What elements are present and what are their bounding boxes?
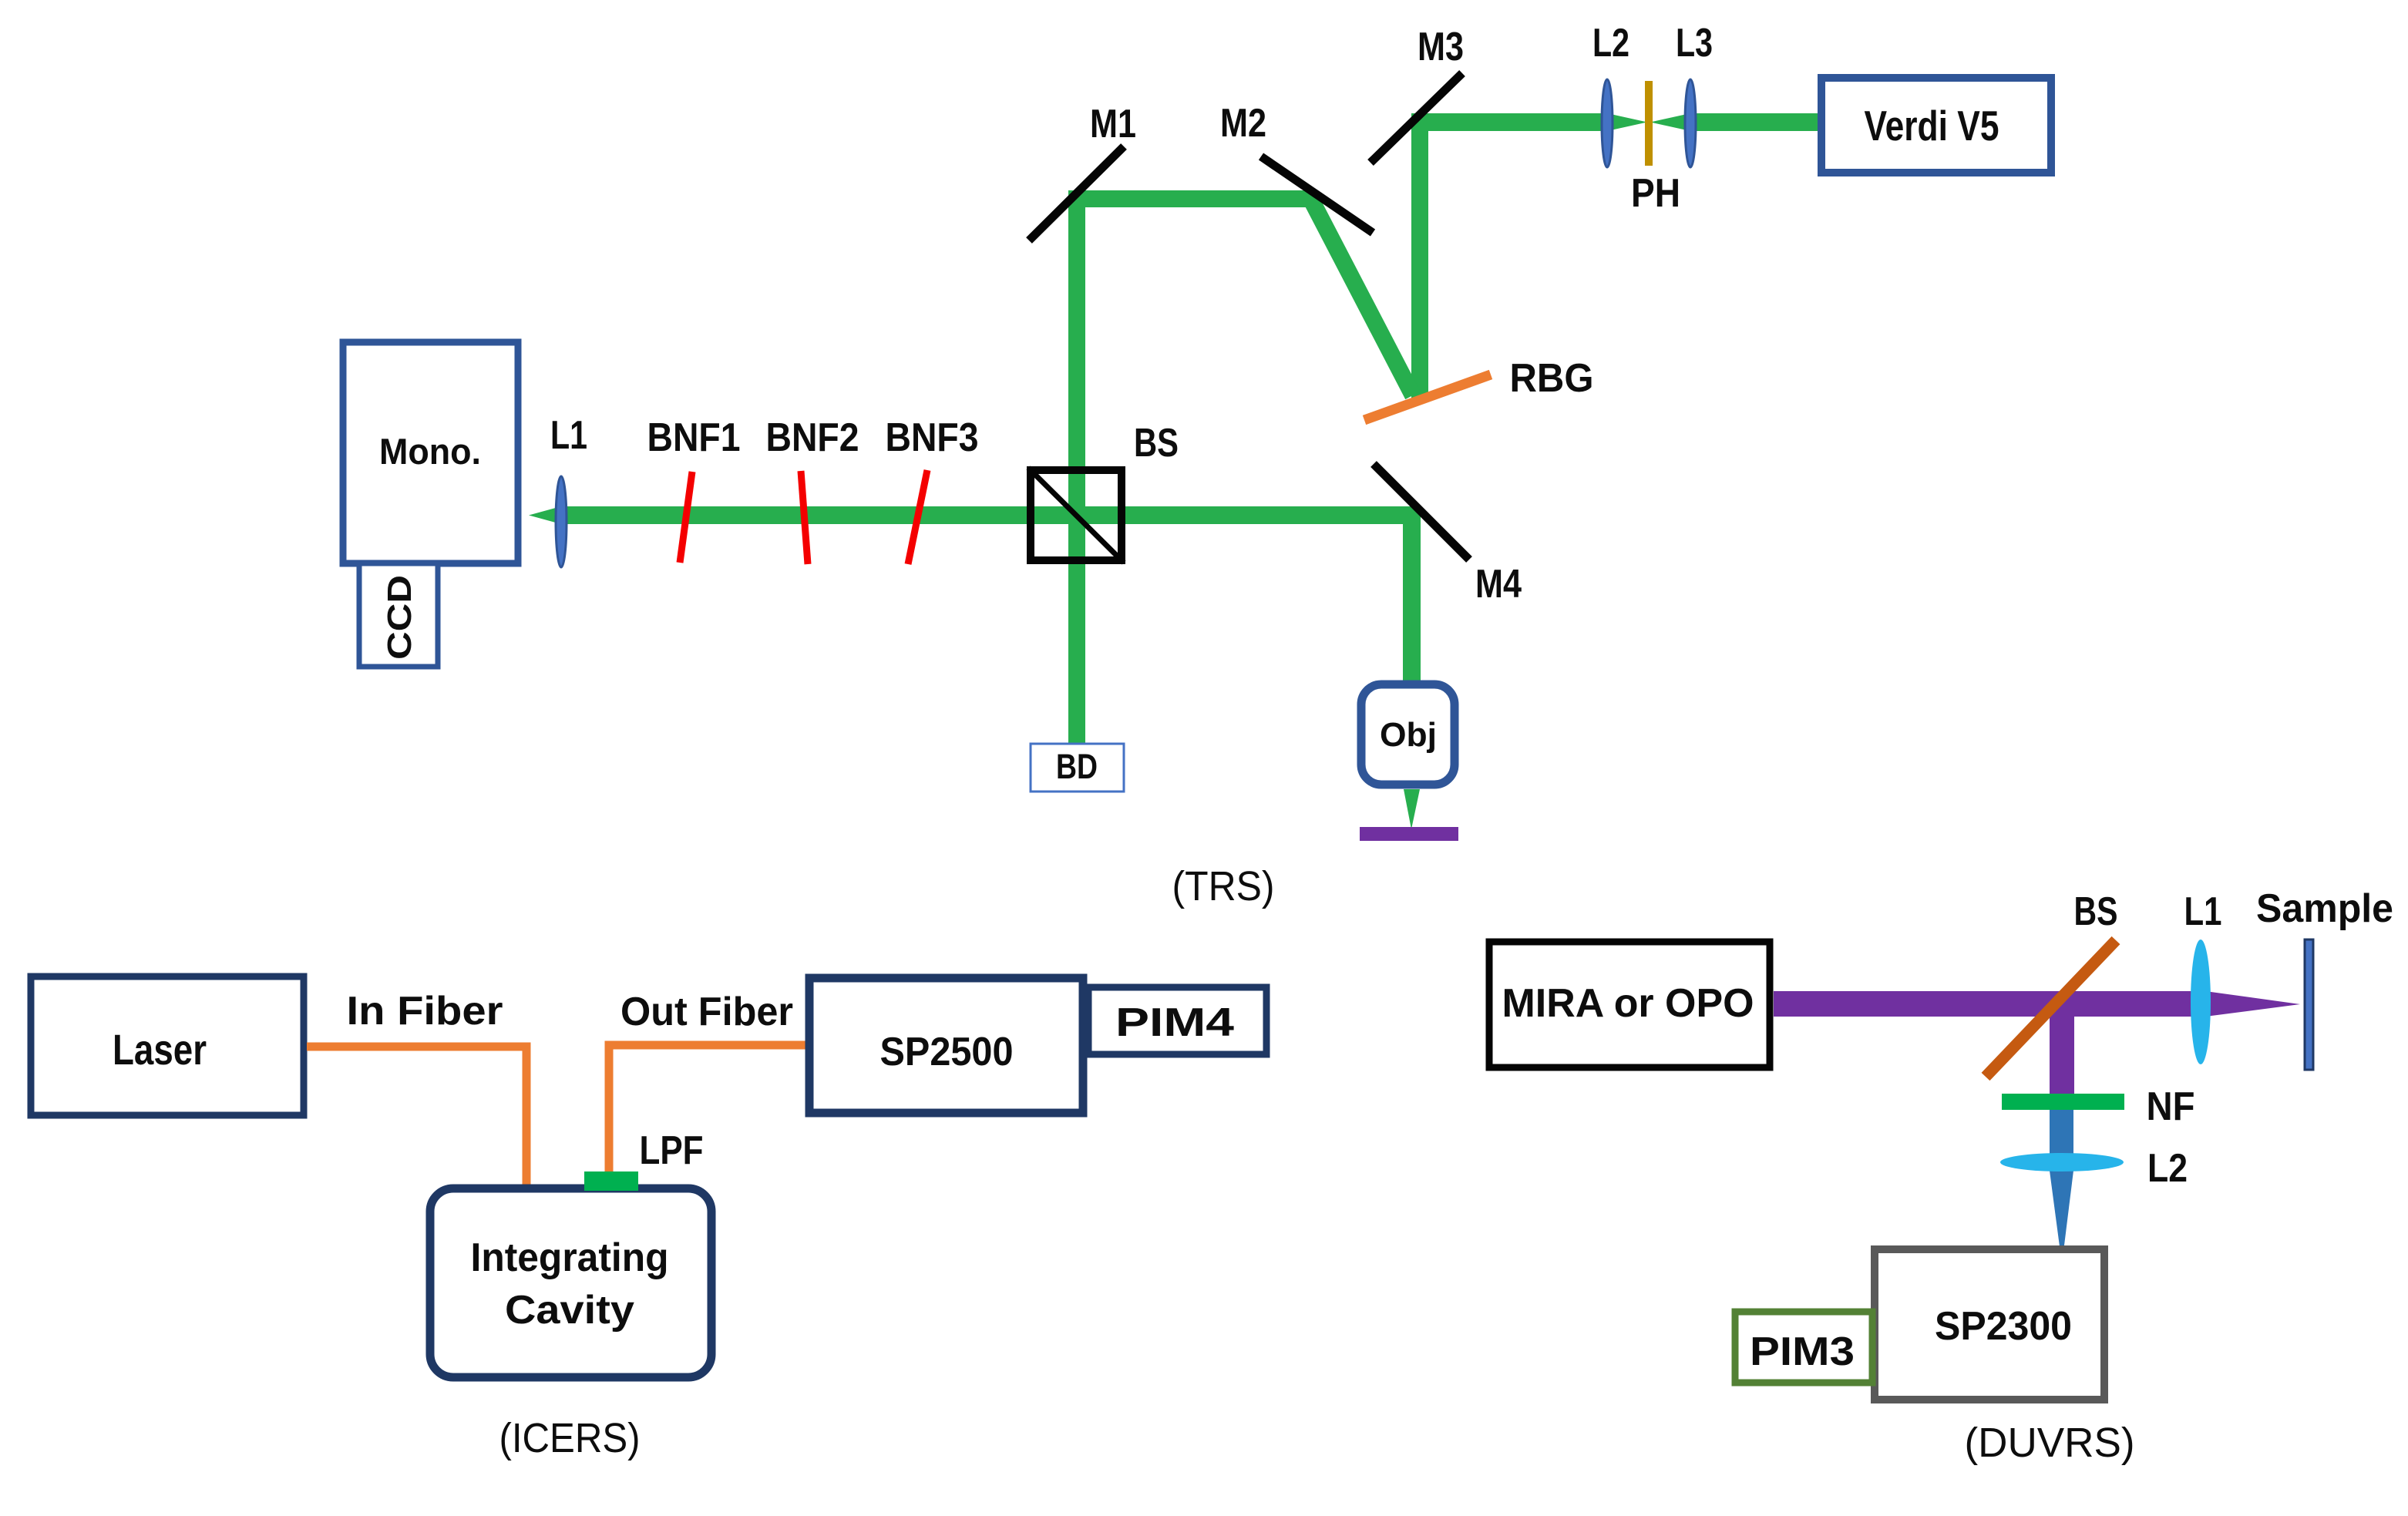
wire: blue focused cone below L2 to SP2300 bbox=[2050, 1171, 2073, 1264]
svg-text:M3: M3 bbox=[1418, 25, 1464, 69]
wire: blue beam NF to L2 (vertical) bbox=[2050, 1110, 2073, 1154]
objective box Obj bbox=[1361, 684, 1455, 785]
mirror M3 bbox=[1370, 73, 1462, 163]
pinhole PH bbox=[1645, 81, 1653, 166]
svg-text:M1: M1 bbox=[1090, 102, 1136, 146]
svg-text:Integrating: Integrating bbox=[471, 1235, 669, 1280]
svg-text:M2: M2 bbox=[1220, 101, 1266, 146]
filter LPF (green) bbox=[584, 1171, 638, 1191]
lens L1 (DUVRS, cyan) bbox=[2191, 940, 2211, 1064]
lens L3 (TRS) bbox=[1685, 79, 1696, 167]
svg-text:PIM3: PIM3 bbox=[1750, 1329, 1855, 1374]
wire: Out Fiber (orange) bbox=[609, 1045, 805, 1171]
svg-text:L2: L2 bbox=[1592, 21, 1629, 66]
monochromator box Mono. bbox=[343, 342, 518, 563]
svg-text:Laser: Laser bbox=[113, 1025, 207, 1074]
svg-text:L2: L2 bbox=[2147, 1146, 2188, 1191]
svg-text:(ICERS): (ICERS) bbox=[499, 1415, 641, 1461]
svg-text:Obj: Obj bbox=[1380, 716, 1437, 754]
wire: purple beam MIRA to sample (horizontal) bbox=[1774, 991, 2300, 1017]
beam splitter BS cube bbox=[1028, 468, 1124, 563]
wire: In Fiber (orange) bbox=[307, 1047, 526, 1187]
svg-text:Sample: Sample bbox=[2256, 886, 2393, 931]
svg-text:LPF: LPF bbox=[640, 1128, 704, 1173]
wire: green diagonal beam RBG up to M2 bbox=[1311, 200, 1413, 395]
lens L2 (DUVRS, cyan, horizontal) bbox=[2000, 1153, 2124, 1171]
integrating cavity box bbox=[430, 1188, 711, 1377]
svg-text:L1: L1 bbox=[2184, 889, 2222, 934]
mirror M2 bbox=[1261, 156, 1373, 233]
svg-text:Cavity: Cavity bbox=[505, 1288, 634, 1333]
svg-text:L1: L1 bbox=[550, 413, 587, 458]
svg-text:(DUVRS): (DUVRS) bbox=[1965, 1420, 2135, 1466]
laser box Verdi V5 bbox=[1821, 78, 2051, 173]
beam dump box BD bbox=[1031, 744, 1124, 792]
laser box Laser bbox=[31, 976, 304, 1115]
mirror M1 bbox=[1029, 146, 1124, 240]
beam splitter BS (DUVRS, orange) bbox=[1986, 940, 2116, 1077]
wire: green beam Mono through BS to M4 (horizontal) bbox=[529, 506, 1421, 524]
wire: green beam M3 down to RBG (vertical) bbox=[1411, 113, 1428, 398]
svg-text:BD: BD bbox=[1056, 747, 1098, 786]
svg-text:M4: M4 bbox=[1475, 562, 1522, 607]
svg-text:BS: BS bbox=[1134, 421, 1179, 466]
svg-text:Out Fiber: Out Fiber bbox=[620, 990, 793, 1034]
grating RBG (orange) bbox=[1364, 375, 1491, 420]
svg-text:BNF1: BNF1 bbox=[647, 415, 741, 460]
svg-text:In Fiber: In Fiber bbox=[347, 989, 503, 1034]
sample bar (DUVRS) bbox=[2305, 940, 2313, 1070]
lens L2 (TRS) bbox=[1602, 79, 1613, 167]
wire: green beam M4 down to Obj (vertical) bbox=[1403, 506, 1421, 682]
detector box CCD bbox=[359, 563, 438, 667]
svg-text:CCD: CCD bbox=[381, 575, 419, 660]
svg-text:SP2300: SP2300 bbox=[1935, 1304, 2072, 1349]
spectrometer box SP2300 bbox=[1875, 1249, 2104, 1400]
lens L1 (TRS) bbox=[556, 476, 567, 567]
svg-text:BNF3: BNF3 bbox=[886, 415, 979, 460]
detector box PIM3 bbox=[1735, 1312, 1872, 1383]
svg-text:Verdi V5: Verdi V5 bbox=[1865, 102, 1999, 150]
spectrometer box SP2500 bbox=[809, 978, 1083, 1113]
sample bar (TRS, purple) bbox=[1360, 827, 1458, 841]
laser box MIRA or OPO bbox=[1489, 942, 1770, 1067]
svg-text:SP2500: SP2500 bbox=[880, 1030, 1014, 1074]
filter BNF1 (red) bbox=[680, 472, 692, 563]
svg-text:(TRS): (TRS) bbox=[1172, 863, 1275, 909]
svg-text:PIM4: PIM4 bbox=[1115, 1000, 1234, 1045]
svg-text:PH: PH bbox=[1631, 171, 1680, 216]
svg-text:L3: L3 bbox=[1676, 21, 1713, 66]
svg-text:RBG: RBG bbox=[1510, 356, 1594, 401]
svg-text:BS: BS bbox=[2074, 889, 2118, 934]
filter BNF3 (red) bbox=[908, 470, 927, 564]
svg-text:Mono.: Mono. bbox=[379, 431, 481, 472]
svg-text:BNF2: BNF2 bbox=[766, 415, 859, 460]
filter BNF2 (red) bbox=[801, 471, 808, 564]
wire: green beam Verdi to M3 corner (horizontal) bbox=[1411, 113, 1821, 131]
label Integrating Cavity bbox=[471, 1235, 669, 1333]
wire: green focused cone below Obj bbox=[1404, 789, 1420, 829]
wire: purple beam BS down to NF (vertical) bbox=[2050, 1004, 2074, 1094]
svg-text:NF: NF bbox=[2147, 1084, 2195, 1129]
filter NF (green) bbox=[2002, 1094, 2124, 1110]
detector box PIM4 bbox=[1088, 987, 1266, 1054]
wire: green beam M1 through BS down to BD (vertical) bbox=[1068, 190, 1085, 744]
mirror M4 bbox=[1374, 464, 1469, 560]
svg-text:MIRA or OPO: MIRA or OPO bbox=[1502, 981, 1754, 1026]
wire: green beam M2 to M1 (horizontal) bbox=[1068, 190, 1315, 207]
